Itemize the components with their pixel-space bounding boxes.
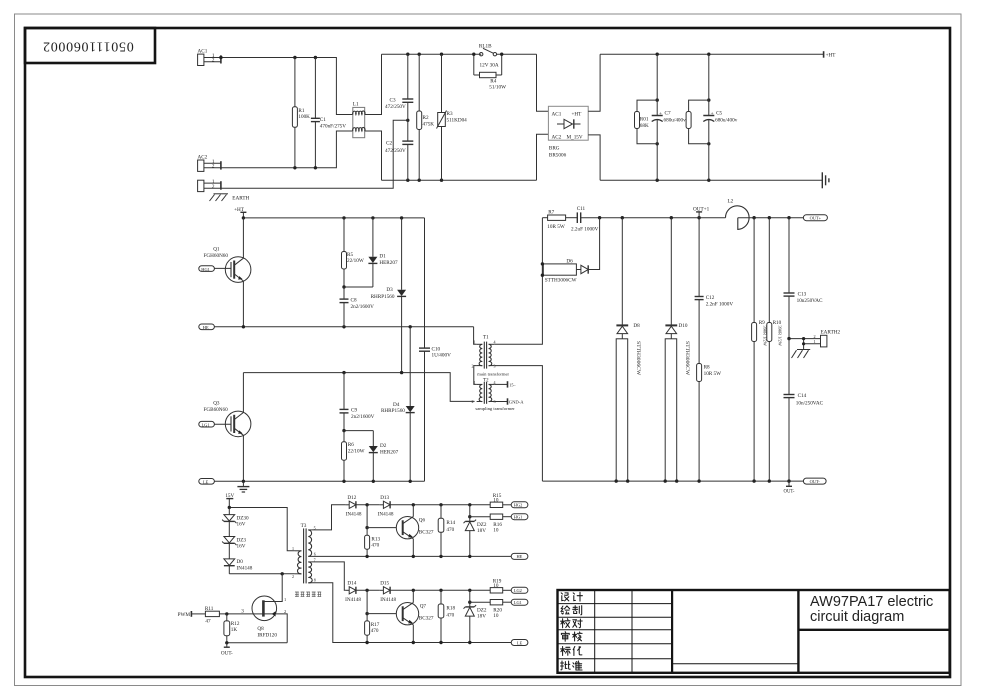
label pizhun (approved) row6 xyxy=(561,661,571,670)
svg-text:STTH3006CW: STTH3006CW xyxy=(684,341,690,376)
diode D13 xyxy=(380,501,414,508)
transistor Q8 IRFD120 xyxy=(252,574,287,643)
svg-text:2: 2 xyxy=(284,609,286,614)
ground primary at Q3 emitter xyxy=(237,481,249,492)
wire L1 top to rail xyxy=(365,54,382,114)
terminal +HT xyxy=(823,51,825,58)
node link dot xyxy=(342,285,345,288)
svg-text:7: 7 xyxy=(314,557,316,562)
svg-text:FGB60N60: FGB60N60 xyxy=(204,407,229,413)
svg-text:390R 1/2W: 390R 1/2W xyxy=(778,326,783,347)
svg-text:+HT: +HT xyxy=(826,53,837,59)
transformer T1 main xyxy=(477,342,495,369)
wire T1 pin3 drop xyxy=(494,366,542,482)
svg-text:IRFD120: IRFD120 xyxy=(257,632,277,638)
svg-text:L1: L1 xyxy=(353,102,359,108)
zener DZ3 xyxy=(222,521,236,545)
svg-text:HER207: HER207 xyxy=(379,260,398,266)
zener DZ2 upper xyxy=(464,505,477,557)
svg-text:6: 6 xyxy=(314,551,316,556)
svg-text:18V: 18V xyxy=(477,528,486,534)
svg-text:C10: C10 xyxy=(432,346,441,352)
label huizhi (drawn) row2 xyxy=(561,606,570,614)
svg-text:T2: T2 xyxy=(483,377,489,383)
svg-text:Q3: Q3 xyxy=(213,401,220,407)
svg-text:R6: R6 xyxy=(348,442,354,448)
svg-text:HG1: HG1 xyxy=(514,515,523,520)
transistor Q7 BC327 xyxy=(396,590,418,642)
svg-text:390R 1/2W: 390R 1/2W xyxy=(763,326,768,347)
resistor R02 bleeder xyxy=(686,100,709,144)
transistor Q6 BC327 xyxy=(396,505,418,557)
node collector rail dots xyxy=(342,371,403,374)
svg-text:10R 5W: 10R 5W xyxy=(704,371,722,377)
svg-text:1: 1 xyxy=(292,546,294,551)
capacitor C9 xyxy=(340,373,349,431)
resistor R13 xyxy=(365,505,370,557)
diode D15 xyxy=(380,587,414,594)
capacitor C13 xyxy=(784,218,795,339)
svg-text:circuit diagram: circuit diagram xyxy=(810,609,904,625)
terminal oval HG2 xyxy=(511,502,528,508)
svg-text:R8: R8 xyxy=(704,365,710,371)
wire L1 bottom to bottom rail xyxy=(365,131,382,180)
svg-text:OUT-: OUT- xyxy=(221,651,233,657)
svg-text:BC327: BC327 xyxy=(419,615,434,621)
terminal oval OUT- xyxy=(803,478,826,484)
wire T1 pin2 to T2 pin1 xyxy=(474,366,477,385)
svg-text:IN4148: IN4148 xyxy=(346,511,362,517)
svg-text:RHRP1560: RHRP1560 xyxy=(381,408,405,414)
wire rail after relay xyxy=(496,53,536,55)
wire R5-D1 link xyxy=(344,286,373,288)
terminal OUT- primary xyxy=(224,643,230,647)
node AC2 junction dots xyxy=(293,166,317,169)
transistor Q3 IGBT xyxy=(214,373,251,482)
zener DZ30 xyxy=(222,508,236,524)
diode D3 xyxy=(397,218,406,373)
svg-text:470: 470 xyxy=(371,628,379,634)
svg-text:3: 3 xyxy=(241,609,244,615)
svg-text:51/10W: 51/10W xyxy=(489,84,506,90)
terminal OUT+1 node marker xyxy=(696,212,702,218)
svg-text:2n2/1600V: 2n2/1600V xyxy=(351,304,375,310)
wire bottom AC rail xyxy=(382,179,537,181)
svg-text:R5: R5 xyxy=(347,252,353,258)
node filter dots xyxy=(656,53,711,182)
node HE dots xyxy=(242,325,412,328)
resistor R11 xyxy=(191,611,252,616)
connector AC1 xyxy=(198,54,221,65)
wire +HT top rail xyxy=(600,53,824,55)
svg-text:sampling transformer: sampling transformer xyxy=(475,406,515,411)
svg-text:R2: R2 xyxy=(423,115,429,121)
connector AC2 xyxy=(198,160,221,171)
node OUT- rail dots xyxy=(615,479,791,482)
node LE rail dots xyxy=(365,641,471,644)
wire driver rail Y2 xyxy=(413,589,490,591)
svg-text:100K: 100K xyxy=(298,114,310,120)
svg-text:2: 2 xyxy=(814,334,816,339)
svg-text:M_15V: M_15V xyxy=(567,134,583,140)
svg-text:2: 2 xyxy=(212,184,215,190)
svg-text:HER207: HER207 xyxy=(380,449,399,455)
wire M_15V bottom rail xyxy=(600,179,822,181)
svg-text:10: 10 xyxy=(493,498,499,504)
svg-text:15V: 15V xyxy=(225,493,234,499)
diode D2 xyxy=(369,431,378,482)
svg-text:680u/400v: 680u/400v xyxy=(715,118,738,124)
svg-text:C13: C13 xyxy=(798,292,807,298)
svg-text:AC1: AC1 xyxy=(552,112,562,118)
middle section labels xyxy=(201,207,524,484)
svg-text:1: 1 xyxy=(474,340,476,345)
node source rail dot xyxy=(225,641,228,644)
node gate dot xyxy=(225,612,228,615)
diode D12 xyxy=(346,501,380,508)
wire T1 pin4 riser xyxy=(494,218,542,345)
svg-text:472/250V: 472/250V xyxy=(385,148,406,154)
terminal oval LE2 xyxy=(511,640,528,646)
svg-text:470: 470 xyxy=(446,527,454,533)
node HE rail dots xyxy=(365,555,471,558)
resistor R15 xyxy=(490,502,511,507)
varistor R3 xyxy=(437,54,447,180)
connector EARTH xyxy=(198,180,221,191)
svg-text:C5: C5 xyxy=(716,111,722,117)
label biaohua (standardized) row5 xyxy=(561,647,571,656)
svg-text:22/10W: 22/10W xyxy=(348,448,365,454)
terminal +HT middle xyxy=(240,212,246,218)
svg-text:C3: C3 xyxy=(390,98,396,104)
wire EARTH to C2C3 midpoint xyxy=(221,120,408,188)
svg-text:1U/400V: 1U/400V xyxy=(432,353,452,359)
svg-text:AC2: AC2 xyxy=(552,134,562,140)
svg-text:STTH3006CW: STTH3006CW xyxy=(545,278,577,284)
inductor L2 xyxy=(725,206,749,230)
resistor R7 snubber xyxy=(542,215,577,220)
wire clamp to T3 pin6 xyxy=(229,573,295,575)
svg-text:OUT-: OUT- xyxy=(810,479,821,484)
title block chinese labels (hand-drawn strokes) xyxy=(561,592,583,670)
svg-text:D2: D2 xyxy=(380,443,387,449)
svg-text:10: 10 xyxy=(493,528,499,534)
svg-text:2.2uF 1000V: 2.2uF 1000V xyxy=(571,227,599,233)
capacitor C10 snubber xyxy=(419,218,430,481)
capacitor C8 xyxy=(340,287,349,327)
diode D14 xyxy=(346,587,380,594)
svg-text:5: 5 xyxy=(314,525,316,530)
wire +HT rail middle xyxy=(243,217,424,219)
svg-text:2: 2 xyxy=(472,399,474,404)
svg-text:LE: LE xyxy=(203,479,209,484)
svg-text:1: 1 xyxy=(814,339,816,344)
svg-text:2n2/1600V: 2n2/1600V xyxy=(351,414,375,420)
wire AC1 to L1 xyxy=(221,58,353,115)
svg-text:R14: R14 xyxy=(446,520,455,526)
node OUT+ rail dots xyxy=(598,216,791,219)
svg-text:D0: D0 xyxy=(237,559,244,565)
svg-text:LE: LE xyxy=(517,640,523,645)
terminal oval LG1 xyxy=(511,599,528,605)
node link dot xyxy=(342,429,345,432)
svg-text:050111060002: 050111060002 xyxy=(42,38,133,53)
wire Q6 base xyxy=(367,527,396,529)
svg-text:BC327: BC327 xyxy=(419,529,434,535)
relay RL1B contacts xyxy=(480,48,497,56)
node Y2 dots xyxy=(412,589,472,604)
svg-text:2: 2 xyxy=(292,574,294,579)
transformer T2 sampling xyxy=(477,382,495,404)
svg-text:Q7: Q7 xyxy=(420,603,427,609)
connector EARTH2 xyxy=(789,335,827,349)
svg-text:+HT: +HT xyxy=(234,207,245,213)
svg-text:4: 4 xyxy=(494,380,496,385)
svg-text:AC1: AC1 xyxy=(198,49,208,55)
svg-text:1K: 1K xyxy=(231,627,238,633)
svg-text:T3: T3 xyxy=(301,523,307,529)
ground chassis EARTH2 xyxy=(792,350,811,359)
wire HE rail bottom section xyxy=(312,555,512,557)
svg-text:Q6: Q6 xyxy=(419,517,426,523)
svg-text:511KD04: 511KD04 xyxy=(447,117,468,123)
resistor R14 xyxy=(438,505,444,557)
wire LE rail xyxy=(214,480,424,482)
svg-text:2: 2 xyxy=(212,163,215,169)
terminal GND-A xyxy=(507,398,509,404)
svg-text:470: 470 xyxy=(371,543,379,549)
svg-text:IN4148: IN4148 xyxy=(237,565,253,571)
svg-text:BRG: BRG xyxy=(549,146,560,152)
terminal PWM xyxy=(190,611,192,617)
svg-text:R01: R01 xyxy=(640,117,649,123)
diode D1 xyxy=(368,218,377,287)
diode D0 xyxy=(224,543,235,574)
svg-text:R18: R18 xyxy=(446,606,455,612)
node X2 dots xyxy=(365,589,368,616)
wire OUT+ rail xyxy=(600,217,726,219)
svg-text:3: 3 xyxy=(494,399,496,404)
svg-text:HE: HE xyxy=(203,325,209,330)
svg-text:10R 5W: 10R 5W xyxy=(547,224,565,230)
wire Q7 base xyxy=(367,613,396,615)
svg-text:AC2: AC2 xyxy=(198,155,208,161)
resistor R9 xyxy=(752,218,757,481)
ground chassis symbol at EARTH xyxy=(210,194,229,201)
wire HE to T1 pin1 xyxy=(474,327,477,345)
svg-text:IN4148: IN4148 xyxy=(345,597,361,603)
svg-text:R17: R17 xyxy=(371,622,380,628)
svg-text:L2: L2 xyxy=(728,199,734,205)
svg-text:2: 2 xyxy=(472,363,474,368)
terminal aux 15 xyxy=(507,381,509,387)
resistor R5 xyxy=(342,218,347,287)
inductor L1 common-mode choke xyxy=(353,107,365,137)
svg-text:OUT+1: OUT+1 xyxy=(693,206,710,212)
svg-text:15–: 15– xyxy=(509,382,516,387)
svg-text:+: + xyxy=(659,111,662,117)
svg-text:10n250VAC: 10n250VAC xyxy=(797,298,823,304)
wire driver rail Y1 xyxy=(413,504,490,506)
wire AC2 to L1 xyxy=(221,131,353,168)
svg-text:IN4148: IN4148 xyxy=(380,597,396,603)
wire T3 pin5 to D12 xyxy=(312,505,346,530)
svg-text:D8: D8 xyxy=(633,323,640,329)
svg-text:12V 30A: 12V 30A xyxy=(480,63,499,69)
label jiaodui (checked) row3 xyxy=(561,619,570,628)
svg-text:LG1: LG1 xyxy=(202,422,210,427)
svg-text:D10: D10 xyxy=(679,323,688,329)
wire C9-D2 link xyxy=(344,430,373,432)
svg-text:GND-A: GND-A xyxy=(509,400,524,405)
capacitor C5 electrolytic xyxy=(703,54,714,180)
output section labels xyxy=(545,199,841,495)
svg-text:68K: 68K xyxy=(640,123,649,129)
node 15V tee dot xyxy=(228,506,231,509)
svg-text:2.2nF 1000V: 2.2nF 1000V xyxy=(706,302,734,308)
wire Q8 source rail xyxy=(227,642,287,644)
resistor R19 xyxy=(490,588,511,593)
terminal OUT- node marker xyxy=(786,481,792,486)
svg-text:C8: C8 xyxy=(351,298,357,304)
svg-text:T1: T1 xyxy=(483,335,489,341)
resistor R4 parallel to relay xyxy=(474,54,502,78)
svg-text:DZ3: DZ3 xyxy=(237,537,247,543)
svg-text:HE: HE xyxy=(517,554,523,559)
svg-text:LG1: LG1 xyxy=(514,600,522,605)
svg-text:HG1: HG1 xyxy=(201,267,210,272)
resistor R8 xyxy=(697,364,702,482)
node R4 rail dots xyxy=(472,53,503,56)
svg-text:main transformer: main transformer xyxy=(477,372,509,377)
corner document-number box xyxy=(25,28,155,63)
svg-text:C7: C7 xyxy=(665,111,671,117)
svg-text:FGH60N60: FGH60N60 xyxy=(204,253,229,259)
svg-text:+HT: +HT xyxy=(572,112,583,118)
svg-text:LG2: LG2 xyxy=(514,588,522,593)
node X1 dot xyxy=(365,503,368,529)
svg-text:RHRP1560: RHRP1560 xyxy=(371,294,395,300)
terminal oval LG1 xyxy=(199,421,215,427)
svg-text:C14: C14 xyxy=(798,393,807,399)
resistor R6 xyxy=(342,431,347,482)
node LE dots xyxy=(242,480,412,483)
svg-text:C9: C9 xyxy=(351,408,357,414)
diode D4 xyxy=(406,327,415,482)
capacitor C14 xyxy=(784,339,795,481)
svg-text:OUT+: OUT+ xyxy=(810,216,822,221)
svg-text:D3: D3 xyxy=(386,287,393,293)
svg-text:AW97PA17 electric: AW97PA17 electric xyxy=(810,594,933,610)
svg-text:D14: D14 xyxy=(347,581,356,587)
svg-text:680u/400v: 680u/400v xyxy=(664,118,687,124)
capacitor C3 xyxy=(402,54,413,141)
svg-text:DZ30: DZ30 xyxy=(237,515,250,521)
node +HT rail dots xyxy=(242,216,404,219)
svg-text:D4: D4 xyxy=(393,402,400,408)
transformer T3 drive xyxy=(295,528,312,583)
diode D10 rectifier xyxy=(665,218,677,481)
capacitor C2 xyxy=(402,141,413,180)
svg-text:C1: C1 xyxy=(320,117,326,123)
svg-text:1: 1 xyxy=(284,597,286,602)
capacitor C12 xyxy=(695,218,704,364)
svg-text:PWM: PWM xyxy=(178,612,191,618)
svg-text:10: 10 xyxy=(493,583,499,589)
zener DZ2 lower xyxy=(464,590,477,642)
resistor R20 xyxy=(470,600,511,605)
resistor R16 xyxy=(470,514,511,519)
svg-text:R1: R1 xyxy=(298,108,304,114)
label drive transformer (chinese, drawn) xyxy=(295,592,321,597)
svg-text:4: 4 xyxy=(494,340,496,345)
top section labels xyxy=(198,44,837,202)
svg-text:R12: R12 xyxy=(231,621,240,627)
bridge rectifier BRG BR5006 xyxy=(548,106,588,140)
resistor R2 xyxy=(417,54,422,180)
svg-text:+: + xyxy=(711,111,714,117)
terminal oval HG1 xyxy=(511,514,528,520)
svg-text:HG2: HG2 xyxy=(514,503,523,508)
svg-text:3: 3 xyxy=(494,363,496,368)
wire OUT- rail xyxy=(542,480,803,482)
svg-text:R3: R3 xyxy=(447,111,453,117)
terminal oval HE xyxy=(199,324,215,330)
transistor Q1 IGBT xyxy=(214,218,251,327)
resistor R12 xyxy=(224,614,230,643)
svg-text:472/250V: 472/250V xyxy=(385,104,406,110)
svg-text:C12: C12 xyxy=(706,295,715,301)
resistor R1 xyxy=(292,58,297,168)
wire T3 pin7 to D14 xyxy=(312,562,346,590)
svg-text:C2: C2 xyxy=(386,141,392,147)
capacitor C1 xyxy=(311,58,320,168)
svg-text:D1: D1 xyxy=(379,254,386,260)
svg-text:1: 1 xyxy=(474,380,476,385)
svg-text:Q1: Q1 xyxy=(213,247,220,253)
wire BRG AC2 to bottom rail xyxy=(537,134,549,180)
terminal oval OUT+ xyxy=(803,215,827,221)
resistor R18 xyxy=(438,590,444,642)
svg-text:470: 470 xyxy=(446,613,454,619)
terminal oval HG1 xyxy=(199,266,215,272)
node rail dots xyxy=(406,53,443,182)
node AC1 junction dots xyxy=(219,56,317,59)
wire BRG M_15V output xyxy=(588,135,600,180)
svg-text:16V: 16V xyxy=(237,544,246,550)
node earth junction dots xyxy=(787,337,805,346)
bottom section labels xyxy=(178,493,523,657)
svg-text:EARTH2: EARTH2 xyxy=(821,329,841,335)
resistor R01 bleeder xyxy=(635,100,658,144)
svg-text:2: 2 xyxy=(212,57,215,63)
diode D8 rectifier xyxy=(616,218,628,481)
svg-text:D15: D15 xyxy=(380,581,389,587)
svg-text:18V: 18V xyxy=(477,614,486,620)
wire BRG +HT output xyxy=(588,54,600,111)
wire T3 pin8 to LE rail xyxy=(312,583,512,643)
svg-text:22/10W: 22/10W xyxy=(347,258,364,264)
wire Q3 collector rail xyxy=(243,373,474,402)
svg-text:IN4148: IN4148 xyxy=(378,511,394,517)
svg-text:R11: R11 xyxy=(205,606,214,612)
wire top AC rail xyxy=(382,53,482,55)
svg-text:475K: 475K xyxy=(423,121,435,127)
wire T2 pin3 to GND-A xyxy=(494,401,507,403)
svg-text:10n/250VAC: 10n/250VAC xyxy=(796,401,824,407)
svg-text:10: 10 xyxy=(493,613,499,619)
wire to BRG AC1 pin xyxy=(537,54,549,111)
